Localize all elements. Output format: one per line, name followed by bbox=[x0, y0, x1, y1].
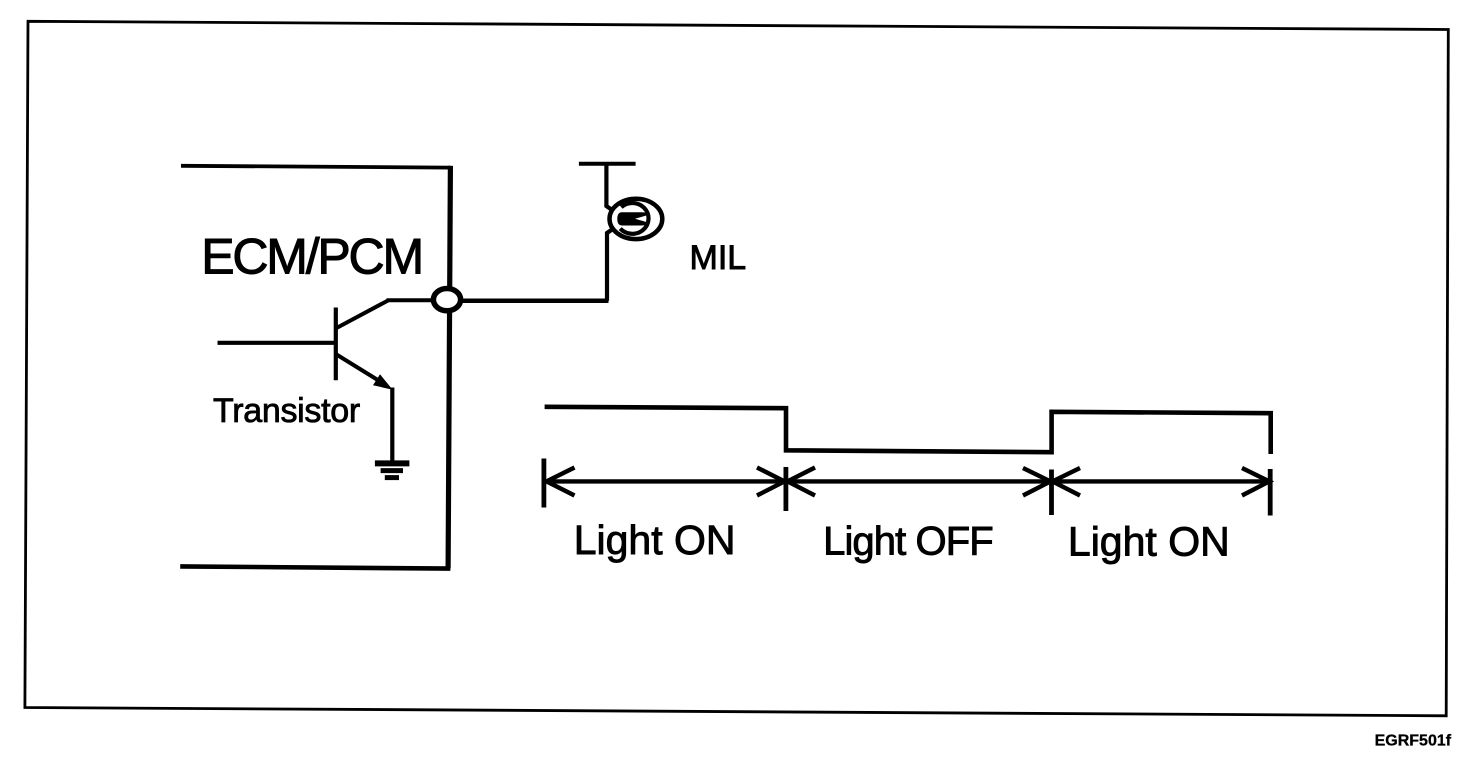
svg-text:EGRF501f: EGRF501f bbox=[1375, 732, 1452, 749]
ECM/PCM box right edge wire bbox=[448, 166, 450, 569]
transistor base bar bbox=[334, 308, 338, 381]
ECM/PCM box bottom wire bbox=[180, 566, 450, 568]
dimension tick 3 bbox=[1049, 470, 1054, 516]
arrowhead right at tick 3 bbox=[1023, 468, 1051, 496]
wire emitter to ground bbox=[390, 388, 394, 462]
dimension tick 4 bbox=[1268, 469, 1273, 516]
arrowhead left at tick 3 bbox=[1053, 468, 1081, 496]
transistor base lead wire bbox=[218, 341, 337, 345]
arrowhead right at tick 2 bbox=[757, 468, 785, 496]
MIL power feed bar bbox=[579, 162, 636, 166]
svg-text:Light ON: Light ON bbox=[1068, 518, 1230, 564]
transistor emitter diagonal bbox=[337, 355, 386, 385]
MIL lamp filament bar bbox=[617, 212, 647, 225]
svg-text:ECM/PCM: ECM/PCM bbox=[201, 228, 422, 284]
MIL lamp bulb outer bbox=[610, 199, 663, 239]
ground bar 2 bbox=[381, 468, 403, 473]
MIL lamp inner arc bbox=[620, 203, 648, 234]
wire node to MIL lamp bbox=[460, 299, 609, 304]
arrowhead left at tick 2 bbox=[788, 468, 816, 496]
wire bar to lamp bbox=[606, 164, 611, 210]
node junction circle bbox=[433, 289, 460, 311]
arrowhead right at tick 4 bbox=[1242, 468, 1269, 496]
ground bar 3 bbox=[385, 475, 399, 480]
waveform trace bbox=[545, 407, 1271, 454]
svg-text:Transistor: Transistor bbox=[213, 392, 360, 430]
wire collector to node bbox=[387, 298, 437, 302]
transistor collector diagonal bbox=[337, 301, 389, 329]
dimension tick 1 bbox=[542, 459, 547, 508]
ECM/PCM box top wire bbox=[181, 166, 451, 168]
wire lamp to node wire bbox=[607, 230, 612, 301]
svg-text:MIL: MIL bbox=[690, 239, 747, 277]
ground bar 1 bbox=[375, 460, 410, 466]
svg-text:Light OFF: Light OFF bbox=[823, 520, 993, 564]
arrowhead left at tick 1 bbox=[547, 468, 575, 496]
transistor emitter arrowhead bbox=[373, 374, 393, 390]
dimension tick 2 bbox=[784, 467, 789, 511]
svg-text:Light ON: Light ON bbox=[574, 517, 736, 563]
dimension line bbox=[546, 479, 1270, 483]
